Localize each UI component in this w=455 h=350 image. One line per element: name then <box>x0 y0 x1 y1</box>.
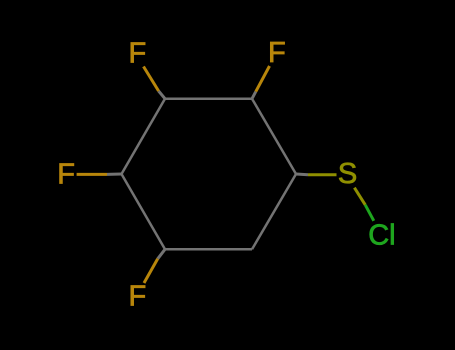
wire ring bond C2-C3 (top) <box>165 97 252 100</box>
bond C3-F (top-left), fluorine half gold <box>144 67 159 92</box>
bond C1-S, sulfur half olive <box>308 173 337 176</box>
wire ring bond C5-C4 (lower left) <box>122 174 166 249</box>
bond S-Cl, chlorine half green <box>365 205 374 221</box>
svg-text:Cl: Cl <box>368 220 395 252</box>
bond C3-F (top-left), carbon half grey <box>159 91 165 99</box>
svg-text:S: S <box>338 158 357 190</box>
wire ring bond C1-C6 (lower right) <box>252 174 296 249</box>
benzene ring C1-C6 <box>122 99 297 250</box>
wire ring bond C4-C3 (upper left) <box>122 99 166 174</box>
svg-text:F: F <box>268 37 286 69</box>
bond C1-S, carbon half grey <box>296 173 308 177</box>
svg-text:F: F <box>57 159 75 191</box>
wire ring bond C1-C2 (upper right) <box>252 99 296 174</box>
bond C2-F (top-right), fluorine half gold <box>256 66 270 92</box>
bond C4-F (left), fluorine half gold <box>77 173 107 176</box>
bond S-Cl, sulfur half olive <box>354 188 365 205</box>
wire ring bond C6-C5 (bottom) <box>165 248 252 251</box>
bond C4-F (left), carbon half grey <box>107 173 122 176</box>
svg-text:F: F <box>128 280 146 312</box>
bond C5-F (bottom), fluorine half gold <box>144 259 158 283</box>
bond C2-F (top-right), carbon half grey <box>252 92 256 99</box>
bond C5-F (bottom), carbon half grey <box>158 249 165 258</box>
svg-text:F: F <box>128 38 146 70</box>
